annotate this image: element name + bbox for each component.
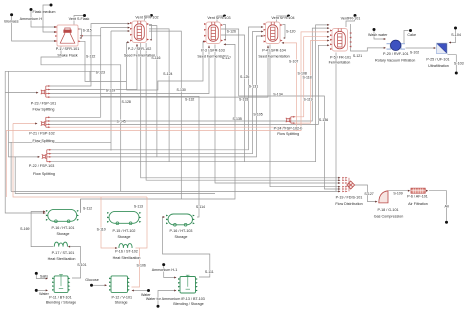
svg-text:S-103: S-103 xyxy=(454,62,464,66)
svg-text:Cake: Cake xyxy=(407,33,416,37)
wire S-112 media east xyxy=(81,43,235,212)
wire flask bottom drain xyxy=(41,46,341,192)
svg-text:Wash water: Wash water xyxy=(368,33,388,37)
svg-text:S-114: S-114 xyxy=(196,205,205,209)
wire S-102 RVF to UF xyxy=(406,47,437,49)
input terminal Biomass xyxy=(4,13,56,42)
input terminal Water BT-101 xyxy=(35,289,50,296)
svg-text:Vent SFR-103: Vent SFR-103 xyxy=(207,16,230,20)
svg-text:P-5 / FR-101: P-5 / FR-101 xyxy=(330,56,351,60)
svg-text:Heat Sterilization: Heat Sterilization xyxy=(113,256,141,260)
label S-102 xyxy=(410,51,419,55)
label S-123 xyxy=(96,71,105,75)
seed fermentor P-2 / SFR-102 xyxy=(130,21,149,43)
svg-text:Storage: Storage xyxy=(115,300,128,304)
svg-text:Flow Distribution: Flow Distribution xyxy=(335,202,362,206)
svg-text:P-11 / BT-101: P-11 / BT-101 xyxy=(49,296,71,300)
svg-text:P-19 / FDIS-101: P-19 / FDIS-101 xyxy=(336,195,363,199)
input terminal Salts xyxy=(35,272,48,280)
wire P-23 out4 xyxy=(48,46,269,98)
svg-text:Heat Sterilization: Heat Sterilization xyxy=(48,257,76,261)
svg-text:Storage: Storage xyxy=(175,235,188,239)
input terminal Water for Ammonium xyxy=(146,290,185,308)
wire L6 west stub xyxy=(11,190,121,192)
svg-text:P-20 / RVF-101: P-20 / RVF-101 xyxy=(383,52,409,56)
wire P-22 out3 xyxy=(49,35,264,157)
wire P-5 drain xyxy=(335,53,337,192)
svg-text:P-15 / HT-102: P-15 / HT-102 xyxy=(113,229,136,233)
input terminal Ammonium Hydroxide xyxy=(20,4,57,34)
label S-113 xyxy=(134,205,143,209)
label P-4 xyxy=(258,48,289,58)
flow splitter P-21 / FSP-102 xyxy=(41,116,51,128)
label P-11 xyxy=(46,296,76,305)
svg-text:Ultrafiltration: Ultrafiltration xyxy=(428,64,449,68)
svg-text:Biomass: Biomass xyxy=(4,19,18,23)
wire P-21 out3 xyxy=(48,44,330,124)
label P-16b xyxy=(113,249,141,259)
wire S-111 BT-102 to HT-103 xyxy=(163,216,210,277)
input terminal Wash water xyxy=(368,28,388,40)
label P-12 xyxy=(112,296,133,305)
svg-text:Vent SFR-104: Vent SFR-104 xyxy=(271,16,294,20)
storage tank P-15 / HT-102 xyxy=(107,211,141,224)
input terminal S-104 xyxy=(449,27,461,44)
blending tank P-13 / BT-103 xyxy=(178,275,198,293)
wire S-125 P-3 out2 xyxy=(221,35,245,162)
wire S-128 into P-2 xyxy=(111,30,130,32)
label S-118 xyxy=(303,76,312,80)
label S-105 xyxy=(253,112,262,116)
label P-16 xyxy=(52,226,75,236)
svg-text:Gas Compression: Gas Compression xyxy=(374,214,404,218)
wire P-22 out2 xyxy=(49,31,264,154)
wire P-4 out stub xyxy=(283,25,286,39)
label S-110 xyxy=(97,227,106,231)
svg-text:Blending / Storage: Blending / Storage xyxy=(173,302,203,306)
label S-122 xyxy=(86,55,95,59)
storage tank P-12 / V-101 xyxy=(109,276,130,293)
wire P-2 out right 3 xyxy=(149,31,181,199)
wire S-112 HT-101 up xyxy=(80,199,82,213)
svg-text:S-110: S-110 xyxy=(97,227,106,231)
svg-text:S-112: S-112 xyxy=(83,207,92,211)
svg-text:Air Filtration: Air Filtration xyxy=(408,202,428,206)
wire connector y142 xyxy=(9,141,112,143)
label P-17 xyxy=(48,251,76,261)
svg-text:P-25 / UF-101: P-25 / UF-101 xyxy=(426,57,449,61)
svg-text:S-116: S-116 xyxy=(151,56,160,60)
svg-text:S-107: S-107 xyxy=(289,59,298,63)
label P-20 xyxy=(375,52,415,63)
svg-text:P-1 / SFR-101: P-1 / SFR-101 xyxy=(56,47,80,51)
svg-text:P-22 / FSP-103: P-22 / FSP-103 xyxy=(29,164,54,168)
seed fermentor P-4 / SFR-104 xyxy=(264,22,283,44)
shake flask P-1 / SFR-101 xyxy=(55,25,83,46)
wire S-117 P-3 out / S-136 xyxy=(221,29,341,190)
heat sterilizer P-17 / ST-101 xyxy=(54,242,67,246)
wire S-107 salmon east xyxy=(6,31,329,197)
wire branch to flask xyxy=(80,35,101,37)
label S-134 xyxy=(273,93,282,97)
svg-text:S-127: S-127 xyxy=(364,192,373,196)
label S-109 xyxy=(393,191,402,195)
rotary vacuum filter P-20 / RVF-101 xyxy=(387,40,406,50)
svg-text:Fermentation: Fermentation xyxy=(329,61,351,65)
svg-text:S-131: S-131 xyxy=(249,84,258,88)
wire S-119 P-24 out2 xyxy=(291,40,330,124)
label S-131 xyxy=(249,84,258,88)
svg-text:P-21 / FSP-102: P-21 / FSP-102 xyxy=(29,131,54,135)
label P-16c xyxy=(170,229,193,239)
svg-text:Seed Fermentation: Seed Fermentation xyxy=(258,55,289,59)
svg-text:Water for Ammonium H: Water for Ammonium H xyxy=(146,297,185,301)
wire S-129 P-23 out3 xyxy=(48,46,210,94)
svg-text:Ammonium H-1: Ammonium H-1 xyxy=(152,268,178,272)
blending tank P-11 / BT-101 xyxy=(52,275,70,293)
svg-text:S-106: S-106 xyxy=(137,263,146,267)
svg-text:Air: Air xyxy=(445,204,450,208)
input terminal Water V-101 xyxy=(132,289,152,297)
vent FR-101 xyxy=(341,14,361,27)
wire S-131 P-22 out1 xyxy=(49,26,264,150)
svg-text:Glucose: Glucose xyxy=(85,278,99,282)
wire margin line y193 xyxy=(15,157,215,194)
wire S-109 compressor to AF xyxy=(389,190,409,192)
svg-text:Flask medium: Flask medium xyxy=(33,10,56,14)
label P-18 xyxy=(374,208,404,219)
vent SFR-102 xyxy=(135,14,158,21)
label S-101 xyxy=(77,263,86,267)
label S-130 xyxy=(177,88,186,92)
svg-text:P-16 / HT-103: P-16 / HT-103 xyxy=(170,229,193,233)
wire P-22 out4 xyxy=(49,24,330,162)
svg-text:S-145: S-145 xyxy=(117,119,126,123)
wire P-2 out stub xyxy=(149,25,152,41)
svg-text:Flow Splitting: Flow Splitting xyxy=(33,172,55,176)
storage tank P-16 / HT-101 xyxy=(46,209,79,222)
label P-25 xyxy=(426,57,449,68)
label S-126 xyxy=(227,29,236,33)
wire P-3 drain xyxy=(215,45,341,185)
wire flask top bus xyxy=(5,70,101,72)
wire left margin bus S-126 xyxy=(5,71,45,214)
svg-text:S-129: S-129 xyxy=(106,88,115,92)
wire P-23 out2 xyxy=(48,44,138,90)
svg-text:Water: Water xyxy=(39,292,49,296)
svg-text:S-133: S-133 xyxy=(239,97,248,101)
output terminal S-103 xyxy=(448,55,464,75)
wire flask out stub xyxy=(79,29,82,39)
svg-text:S-120: S-120 xyxy=(286,29,295,33)
label S-112 xyxy=(83,207,92,211)
wire S-122 flask riser xyxy=(79,41,127,81)
wire S-113 salmon riser xyxy=(136,197,148,248)
label S-119 xyxy=(304,98,313,102)
wire S-101 BT-101 to ST-101 xyxy=(68,246,81,278)
wire S-123 lower segment xyxy=(100,96,102,117)
svg-text:S-136: S-136 xyxy=(319,118,328,122)
svg-text:P-17 / ST-101: P-17 / ST-101 xyxy=(52,251,75,255)
svg-text:S-128: S-128 xyxy=(122,100,131,104)
wire S-169 ST-101 to HT-101 xyxy=(31,211,53,247)
wire S-121 FR-101 to RVF xyxy=(351,24,387,51)
svg-text:P-16 / HT-101: P-16 / HT-101 xyxy=(52,226,75,230)
wire P-4 drain xyxy=(270,45,341,188)
label P-5 xyxy=(329,56,351,65)
svg-text:S-119: S-119 xyxy=(304,98,313,102)
wire S-110 salmon drop xyxy=(101,197,118,249)
svg-text:Storage: Storage xyxy=(118,235,131,239)
label S-125 xyxy=(240,75,249,79)
label S-111 xyxy=(205,270,214,274)
wire P-2 drain a xyxy=(141,43,341,179)
input terminal Glucose xyxy=(85,278,107,287)
flow splitter P-23 / FSP-101 xyxy=(41,85,51,98)
wire S-106 glucose riser xyxy=(132,248,140,287)
label S-133 xyxy=(239,97,248,101)
svg-text:S-117: S-117 xyxy=(222,56,231,60)
label S-121 xyxy=(353,54,362,58)
label S-136 xyxy=(319,118,328,122)
wire margin second drop xyxy=(9,71,41,158)
svg-text:S-169: S-169 xyxy=(20,227,29,231)
input terminal Ammonium H-1 xyxy=(152,263,178,278)
svg-text:P-12 / V-101: P-12 / V-101 xyxy=(112,296,133,300)
svg-text:S-101: S-101 xyxy=(77,263,86,267)
label P-24 xyxy=(274,126,303,136)
label S-117 xyxy=(222,56,231,60)
label P-22 xyxy=(29,164,55,176)
label S-107 xyxy=(289,59,298,63)
wire AF to Air terminal xyxy=(429,191,450,224)
label P-23 xyxy=(31,102,56,112)
svg-text:Ammonium H: Ammonium H xyxy=(20,17,43,21)
label P-13 xyxy=(173,297,205,306)
wire staircase to P-3 xyxy=(126,41,205,91)
label P-6 xyxy=(407,194,428,206)
svg-text:P-3 / SFR-103: P-3 / SFR-103 xyxy=(201,48,225,52)
svg-text:Blending / Storage: Blending / Storage xyxy=(46,300,76,304)
svg-text:S-125: S-125 xyxy=(240,75,249,79)
fermentor P-5 / FR-101 xyxy=(330,29,351,52)
svg-text:Shake Flask: Shake Flask xyxy=(57,53,77,57)
label S-129 xyxy=(106,88,115,92)
svg-text:Rotary Vacuum Filtration: Rotary Vacuum Filtration xyxy=(375,58,415,62)
label P-15 xyxy=(113,229,136,239)
input terminal Flask medium xyxy=(30,8,57,28)
label S-116 xyxy=(151,56,160,60)
wire P-21 out1 xyxy=(48,116,101,118)
wire S-122 into P-2 xyxy=(126,41,129,90)
seed fermentor P-3 / SFR-103 xyxy=(204,22,223,44)
svg-text:S-130: S-130 xyxy=(177,88,186,92)
svg-text:Flow Splitting: Flow Splitting xyxy=(33,139,55,143)
svg-text:Flow Splitting: Flow Splitting xyxy=(33,108,55,112)
label P-19 xyxy=(335,195,362,206)
label S-108 xyxy=(298,72,307,76)
svg-text:Salts: Salts xyxy=(40,275,48,279)
wire P-23 out1 riser xyxy=(48,23,130,86)
label P-3 xyxy=(197,48,228,58)
svg-text:S-104: S-104 xyxy=(451,33,461,37)
svg-text:S-122: S-122 xyxy=(86,55,95,59)
svg-text:P-18 / G-101: P-18 / G-101 xyxy=(377,208,398,212)
wire margin jog xyxy=(89,71,91,81)
wire S-123 / S-114 media line xyxy=(101,28,199,217)
svg-text:P-13 / BT-103: P-13 / BT-103 xyxy=(182,297,205,301)
flow splitter P-24 / FSP-102-b xyxy=(286,116,296,124)
svg-text:P-2 / SFR-102: P-2 / SFR-102 xyxy=(128,47,152,51)
wire S-128 vertical xyxy=(110,31,112,151)
svg-text:S-109: S-109 xyxy=(393,191,402,195)
svg-text:S-111: S-111 xyxy=(205,270,214,274)
svg-text:P-23 / FSP-101: P-23 / FSP-101 xyxy=(31,102,56,106)
wire margin drop 3 xyxy=(10,142,12,191)
vent SFR-104 xyxy=(271,15,294,22)
svg-text:S-121: S-121 xyxy=(353,54,362,58)
wire S-127 FDIS to compressor xyxy=(355,185,378,203)
svg-text:S-134: S-134 xyxy=(273,93,282,97)
svg-text:S-115: S-115 xyxy=(83,29,92,33)
wire S-105 P-21 out4 to P-24 xyxy=(48,126,286,128)
wire branch to P-23 input xyxy=(5,92,38,94)
label S-169 xyxy=(20,227,29,231)
wire S-123 into P-2 xyxy=(101,27,130,29)
storage tank P-16 / HT-103 xyxy=(166,214,195,226)
svg-text:Vent SFR-102: Vent SFR-102 xyxy=(135,16,158,20)
svg-text:S-105: S-105 xyxy=(253,112,262,116)
svg-text:Flow Splitting: Flow Splitting xyxy=(277,132,299,136)
gas compressor P-18 / G-101 xyxy=(379,191,388,203)
svg-text:S-132: S-132 xyxy=(185,98,194,102)
svg-text:P-24 / FSP-102-b: P-24 / FSP-102-b xyxy=(274,126,303,130)
label S-132 xyxy=(185,98,194,102)
svg-text:Storage: Storage xyxy=(57,232,70,236)
flow distributor P-19 / FDIS-101 xyxy=(342,177,354,192)
air filter P-6 / AF-101 xyxy=(408,188,428,193)
svg-text:P-4 / SFR-104: P-4 / SFR-104 xyxy=(262,48,286,52)
wire S-107 riser to P-4 xyxy=(282,42,297,131)
heat sterilizer P-16 / ST-102 xyxy=(119,244,132,248)
wire S-116 P-2 drain b xyxy=(146,43,340,181)
svg-text:VentFR-101: VentFR-101 xyxy=(341,16,361,20)
label P-21 xyxy=(29,131,54,143)
flow splitter P-22 / FSP-103 xyxy=(42,149,52,163)
wire S-118 P-24 out1 xyxy=(291,36,330,117)
wire S-116 P-2 out right 1 xyxy=(149,26,157,157)
vent SFR-103 xyxy=(207,15,230,22)
wire salmon into P-21 xyxy=(13,123,38,125)
svg-text:Vent S.Flask: Vent S.Flask xyxy=(69,17,90,21)
wire P-21 out2 xyxy=(48,27,330,121)
label P-2 xyxy=(124,47,155,58)
svg-text:P-16 / ST-102: P-16 / ST-102 xyxy=(115,249,138,253)
label S-106 xyxy=(137,263,146,267)
svg-text:S-123: S-123 xyxy=(96,71,105,75)
svg-text:P-6 / AF-101: P-6 / AF-101 xyxy=(407,194,428,198)
svg-text:S-126: S-126 xyxy=(227,29,236,33)
label P-1 xyxy=(56,47,80,58)
wire P-3 out stub xyxy=(223,25,226,41)
svg-text:S-124: S-124 xyxy=(163,72,172,76)
svg-text:S-102: S-102 xyxy=(410,51,419,55)
wire salmon feed bus xyxy=(13,124,147,198)
svg-text:S-118: S-118 xyxy=(303,76,312,80)
label S-128 xyxy=(122,100,131,104)
output terminal Cake xyxy=(404,29,416,43)
label S-120 xyxy=(286,29,295,33)
label S-114 xyxy=(196,205,205,209)
label S-127 xyxy=(364,192,373,196)
wire S-124 P-2 out right 2 xyxy=(149,29,169,162)
label S-115 xyxy=(83,29,92,33)
vent Shake Flask xyxy=(69,14,90,25)
svg-text:S-113: S-113 xyxy=(134,205,143,209)
label S-124 xyxy=(163,72,172,76)
ultrafilter P-25 / UF-101 xyxy=(437,43,448,53)
label S-135 xyxy=(233,117,242,121)
svg-text:S-135: S-135 xyxy=(233,117,242,121)
label S-145 xyxy=(117,119,126,123)
